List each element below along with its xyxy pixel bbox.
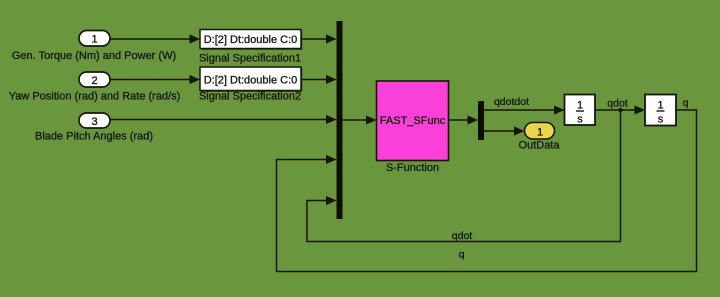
svg-text:Signal Specification1: Signal Specification1 [199, 53, 301, 65]
svg-text:s: s [658, 114, 664, 126]
svg-text:1: 1 [537, 127, 543, 139]
svg-text:2: 2 [91, 75, 97, 87]
svg-text:1: 1 [657, 100, 663, 112]
svg-text:q: q [459, 249, 465, 261]
svg-text:qdot: qdot [452, 230, 473, 242]
svg-text:qdotdot: qdotdot [494, 96, 529, 108]
svg-text:1: 1 [91, 34, 97, 46]
svg-text:Yaw Position (rad) and Rate (r: Yaw Position (rad) and Rate (rad/s) [9, 91, 181, 103]
svg-text:OutData: OutData [519, 140, 561, 152]
svg-text:q: q [683, 97, 689, 109]
svg-text:1: 1 [577, 100, 583, 112]
svg-text:Gen. Torque (Nm) and Power (W): Gen. Torque (Nm) and Power (W) [12, 50, 176, 62]
svg-text:3: 3 [91, 116, 97, 128]
svg-text:Signal Specification2: Signal Specification2 [199, 91, 301, 103]
svg-text:D:[2] Dt:double C:0: D:[2] Dt:double C:0 [204, 75, 298, 87]
svg-text:qdot: qdot [607, 98, 628, 110]
svg-text:s: s [577, 114, 583, 126]
svg-text:D:[2] Dt:double C:0: D:[2] Dt:double C:0 [204, 34, 298, 46]
svg-text:Blade Pitch Angles (rad): Blade Pitch Angles (rad) [35, 131, 153, 143]
svg-text:FAST_SFunc: FAST_SFunc [380, 115, 446, 127]
svg-text:S-Function: S-Function [386, 162, 439, 174]
